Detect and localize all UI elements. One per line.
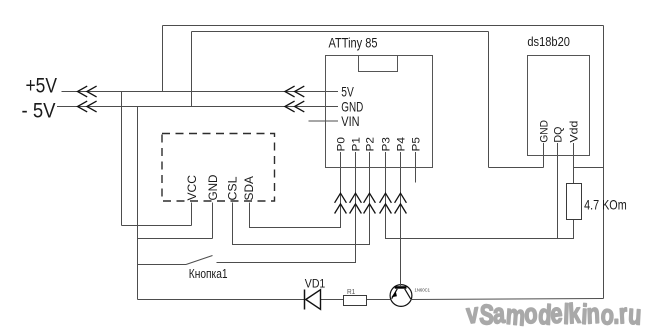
- transistor tiny part number: [415, 288, 431, 293]
- pin label P0: [336, 137, 348, 151]
- wire ds18b20 GND pin: [543, 143, 545, 168]
- connector chevrons right GND: [285, 101, 304, 112]
- wire +5V frame left drop: [162, 26, 164, 92]
- svg-text:R1: R1: [347, 289, 355, 296]
- chevrons pin P3: [380, 193, 392, 213]
- pin label VIN: [341, 113, 359, 129]
- wire GND inner top frame: [192, 31, 489, 33]
- pin label P4: [396, 137, 408, 151]
- transistor emitter line: [392, 289, 398, 299]
- label ds18b20: [527, 34, 570, 49]
- svg-text:VCC: VCC: [187, 175, 199, 201]
- wire diode to R1: [321, 299, 344, 301]
- pin label P5: [411, 137, 423, 151]
- wire P3 to resistor bottom / DQ: [386, 152, 575, 239]
- watermark vSamodelkino.ru: [465, 298, 643, 332]
- chevrons pin P4: [395, 193, 407, 213]
- wire P5 stub: [415, 152, 417, 183]
- connector chevrons left +5V: [78, 86, 97, 97]
- svg-text:GND: GND: [539, 120, 551, 143]
- wire -5V horizontal line: [57, 106, 326, 108]
- dashed display connector box: [162, 134, 275, 202]
- wire GND pin stub: [212, 203, 214, 239]
- label Кнопка1: [189, 266, 228, 281]
- diode VD1 cathode bar: [304, 290, 306, 310]
- connector chevrons left -5V: [78, 101, 97, 112]
- pin label P3: [381, 137, 393, 151]
- pin label CSL: [228, 176, 240, 201]
- transistor Q1 circle: [390, 285, 412, 307]
- svg-text:VD1: VD1: [305, 276, 326, 290]
- svg-text:- 5V: - 5V: [22, 100, 56, 123]
- chevrons pin P1: [350, 193, 362, 213]
- transistor collector line: [405, 289, 411, 299]
- label -5V: [22, 100, 56, 123]
- svg-text:CSL: CSL: [228, 176, 240, 201]
- wire -5V rail to GND pin: [138, 238, 213, 240]
- svg-text:P0: P0: [336, 137, 348, 151]
- wire P4 to transistor base: [400, 152, 402, 284]
- diode VD1 triangle: [306, 290, 321, 310]
- wire ds18b20 DQ pin down to P3 wire: [557, 143, 559, 239]
- label R1: [347, 289, 355, 296]
- svg-text:SDA: SDA: [244, 176, 256, 201]
- label VD1: [305, 276, 326, 290]
- resistor R1 body: [344, 296, 367, 306]
- svg-text:+5V: +5V: [26, 74, 58, 97]
- wire bottom rail right (collector to frame): [412, 299, 604, 300]
- wire GND inner left drop: [191, 32, 193, 107]
- ds18b20 body box: [528, 56, 590, 156]
- svg-text:vSamodelkino.ru: vSamodelkino.ru: [465, 298, 643, 332]
- wire ATTiny VIN pin stub: [309, 120, 339, 122]
- svg-text:4.7 KOm: 4.7 KOm: [584, 197, 627, 213]
- wire ATTiny GND pin tick: [326, 106, 339, 108]
- wire ATTiny 5V pin tick: [326, 91, 339, 93]
- pin label Vdd: [569, 121, 581, 143]
- wire +5V rail to VCC pin: [122, 225, 192, 227]
- pin label SDA: [244, 176, 256, 201]
- ATTiny 85 notch: [359, 56, 398, 72]
- svg-text:P2: P2: [365, 137, 377, 151]
- svg-text:P4: P4: [396, 137, 408, 151]
- svg-text:GND: GND: [341, 99, 363, 115]
- pin label GND ds18b20: [539, 120, 551, 143]
- svg-text:5V: 5V: [341, 83, 354, 99]
- pin label VCC: [187, 175, 199, 201]
- resistor 4.7 KOm body: [567, 184, 582, 220]
- svg-text:ds18b20: ds18b20: [527, 34, 570, 49]
- transistor base bar: [395, 286, 407, 289]
- wire GND inner right drop: [488, 32, 490, 168]
- wire bottom rail left to diode: [138, 299, 305, 301]
- svg-text:Vdd: Vdd: [569, 121, 581, 143]
- wire GND to ds18b20 GND pin: [489, 167, 544, 169]
- pin label P1: [351, 137, 363, 151]
- svg-text:P5: P5: [411, 137, 423, 151]
- label 4.7 KOm: [584, 197, 627, 213]
- svg-text:VIN: VIN: [341, 113, 359, 129]
- wire VCC pin stub: [191, 203, 193, 226]
- label ATTiny 85: [329, 35, 378, 51]
- wire P0 to SDA: [250, 152, 341, 228]
- chevrons pin P0: [335, 193, 347, 213]
- wire ds18b20 Vdd pin down to resistor top: [573, 143, 575, 184]
- wire -5V rail down: [137, 107, 139, 300]
- label +5V: [26, 74, 58, 97]
- switch lever Кнопка1: [186, 256, 213, 265]
- svg-text:Кнопка1: Кнопка1: [189, 266, 228, 281]
- transistor base wire into circle: [400, 284, 402, 287]
- wire +5V rail down: [121, 92, 123, 226]
- connector chevrons right +5V: [285, 86, 304, 97]
- wire +5V top frame: [163, 25, 604, 27]
- pin label GND dashed box: [208, 175, 220, 201]
- wire +5V frame right drop: [603, 26, 605, 299]
- wire R1 to transistor: [367, 299, 391, 301]
- wire +5V horizontal line: [62, 91, 326, 93]
- pin label P2: [365, 137, 377, 151]
- wire switch left contact: [138, 264, 187, 266]
- svg-text:DQ: DQ: [553, 126, 565, 142]
- chevrons pin P2: [364, 193, 376, 213]
- wire resistor bottom stub: [573, 220, 575, 239]
- pin label GND: [341, 99, 363, 115]
- pin label 5V: [341, 83, 354, 99]
- svg-text:ATTiny 85: ATTiny 85: [329, 35, 378, 51]
- op-amp ATTiny 85 body box U1: [326, 56, 433, 168]
- svg-text:P3: P3: [381, 137, 393, 151]
- transistor emitter arrow: [391, 291, 397, 297]
- svg-text:GND: GND: [208, 175, 220, 201]
- wire Vdd to +5V right frame: [574, 167, 604, 169]
- svg-text:1N60C1: 1N60C1: [415, 288, 431, 293]
- wire P2 to CSL: [233, 152, 370, 245]
- pin label DQ: [553, 126, 565, 142]
- svg-text:P1: P1: [351, 137, 363, 151]
- wire P1 to switch right contact: [217, 152, 356, 263]
